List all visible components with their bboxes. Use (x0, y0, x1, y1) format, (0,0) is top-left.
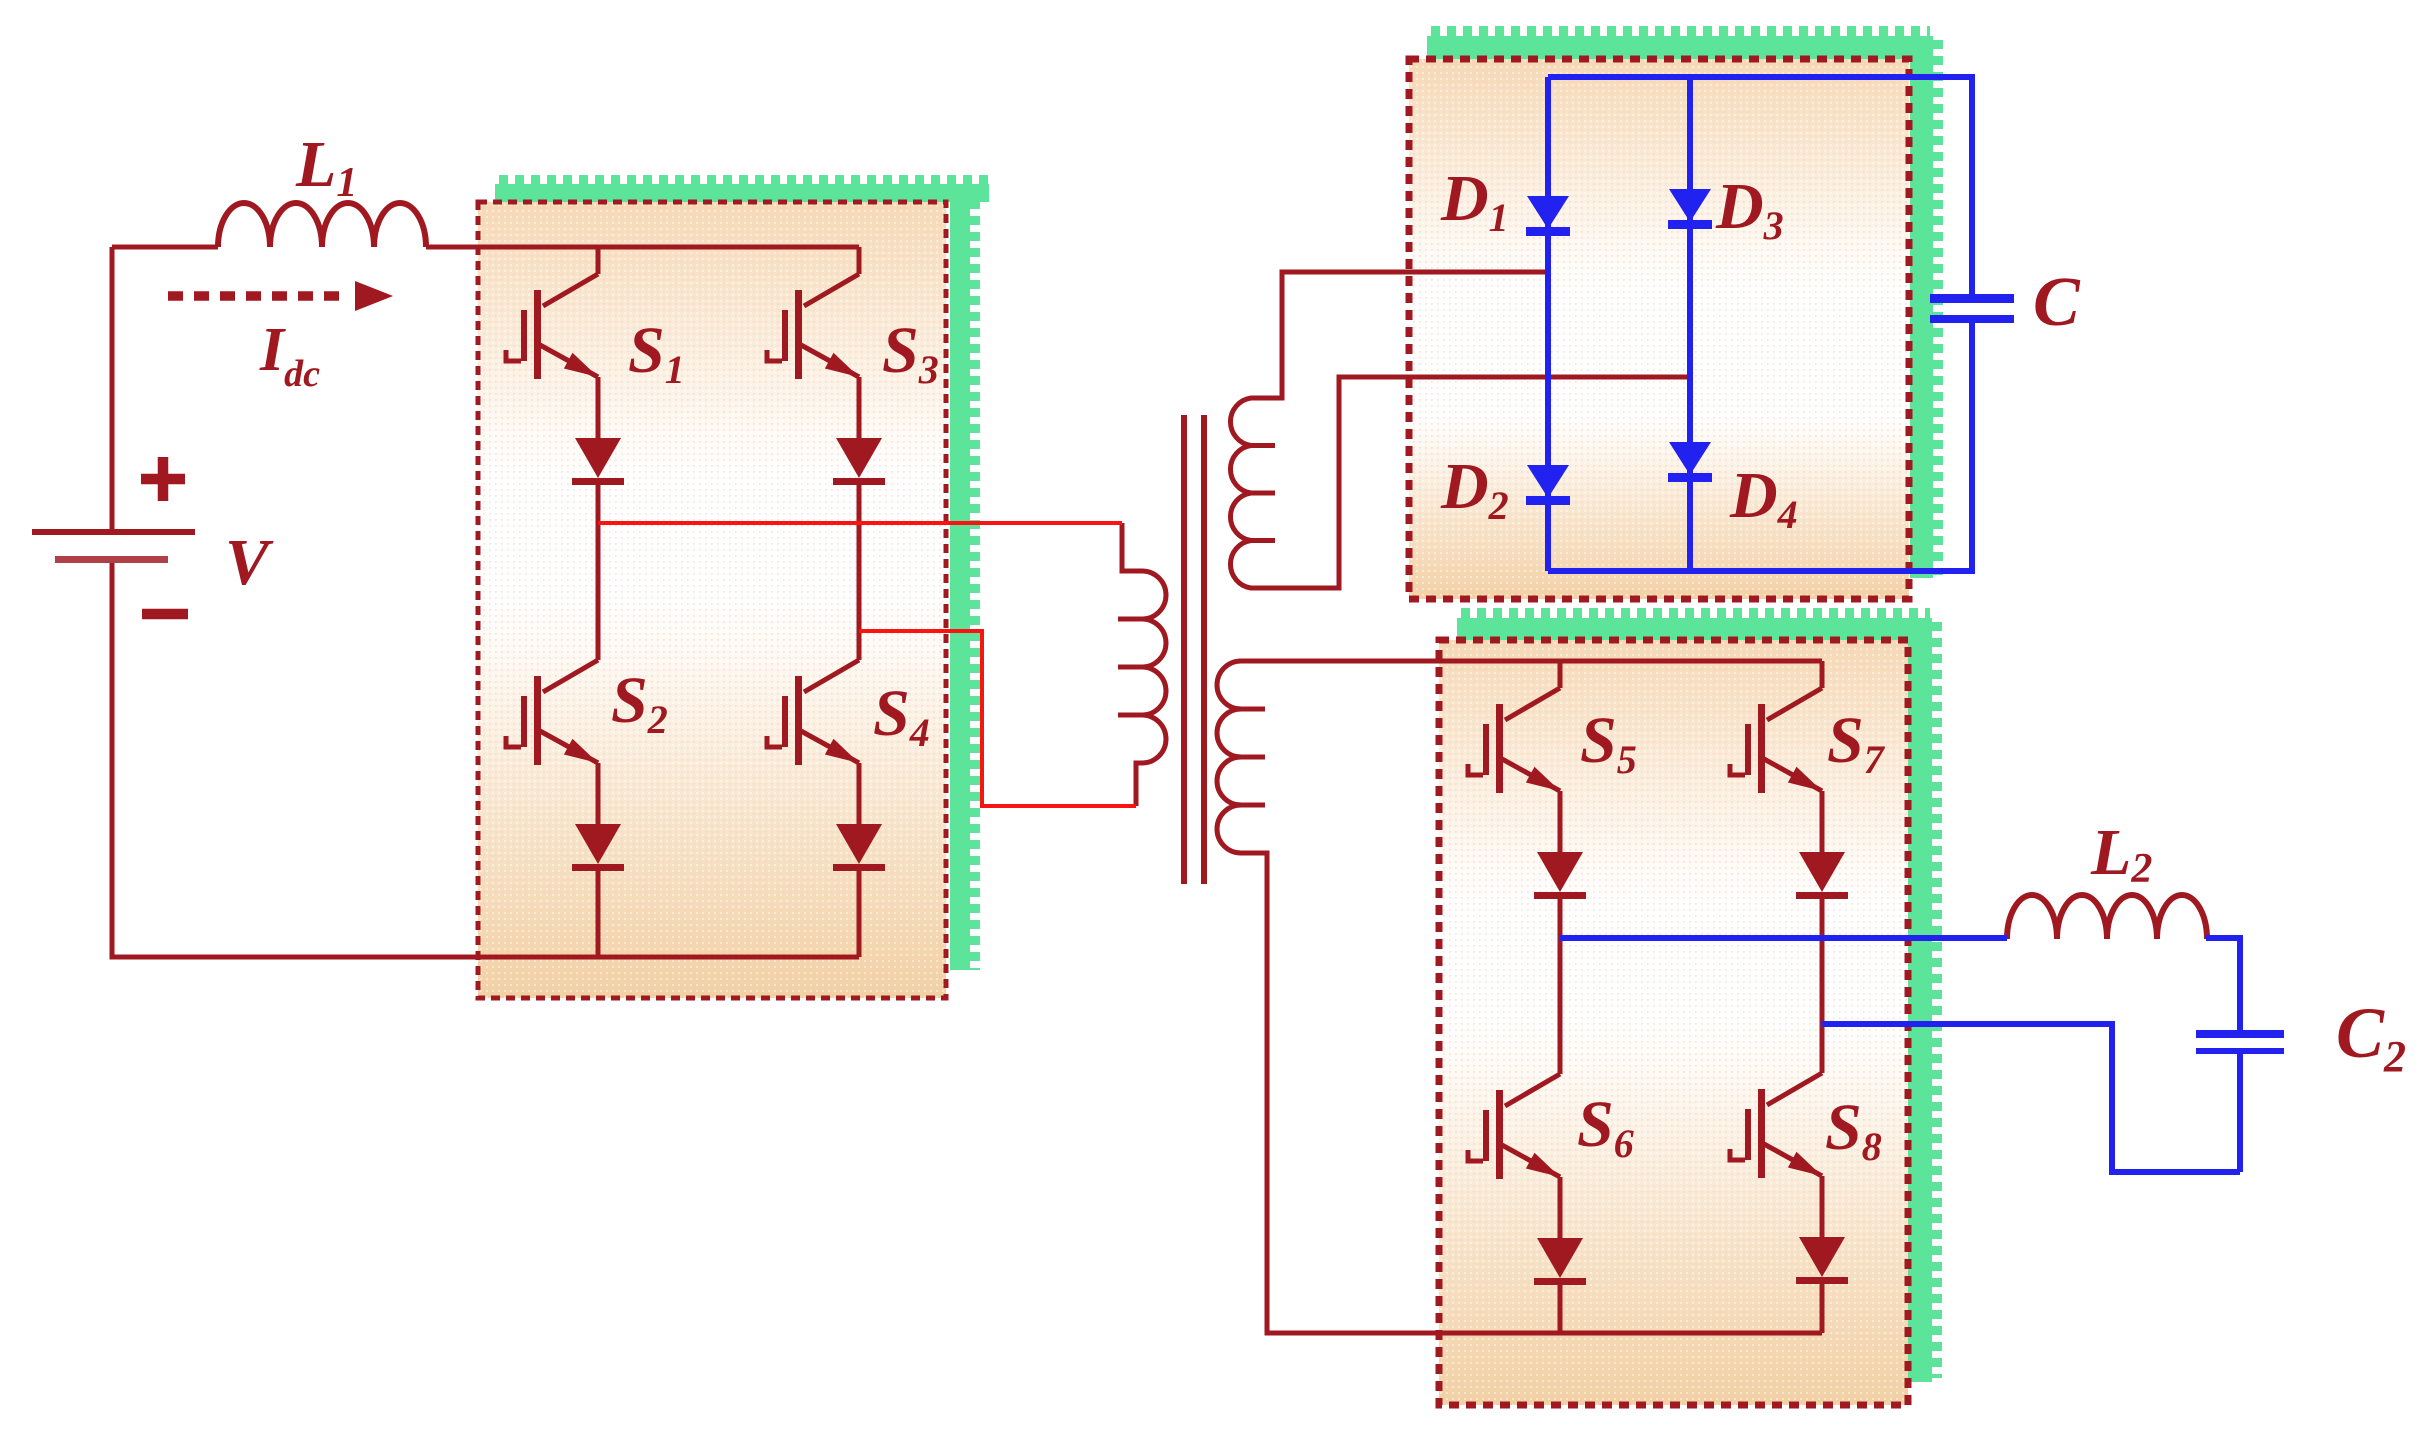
svg-text:C: C (2033, 264, 2081, 341)
svg-text:V: V (225, 526, 274, 599)
